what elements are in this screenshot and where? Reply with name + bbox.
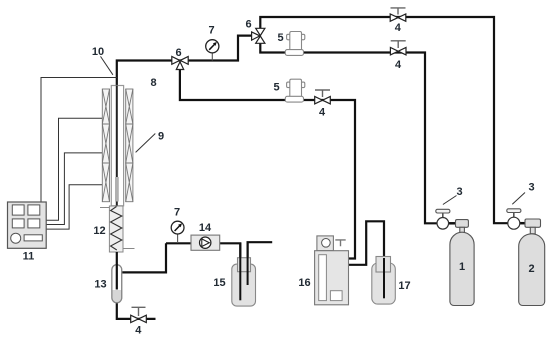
svg-text:17: 17 <box>398 280 410 292</box>
svg-text:2: 2 <box>528 263 534 275</box>
gas cylinder 2 <box>519 219 545 306</box>
svg-text:7: 7 <box>208 25 214 37</box>
reactor heater right jacket <box>126 89 133 202</box>
wire line3 from valve 6a to humidifier 16 <box>180 70 355 259</box>
svg-text:6: 6 <box>175 47 181 59</box>
wire separator 13 outlet to pump line <box>122 243 191 272</box>
svg-text:10: 10 <box>92 46 104 58</box>
bottle 15 <box>232 243 256 306</box>
three-way valve 6a <box>172 57 188 70</box>
svg-text:1: 1 <box>459 261 465 273</box>
wire riser valve6b to top line and down-leg line2 <box>260 17 508 223</box>
separator 13 <box>112 264 122 303</box>
svg-text:4: 4 <box>319 107 326 119</box>
svg-text:12: 12 <box>93 225 105 237</box>
svg-text:11: 11 <box>23 251 35 263</box>
leader label 10 <box>101 56 113 74</box>
svg-text:4: 4 <box>395 59 402 71</box>
three-way valve 6b <box>252 28 265 43</box>
regulator 3 cylinder1 <box>436 209 450 229</box>
wire cylinder2 regulator connector <box>520 222 525 225</box>
wire bottle 15 vent <box>248 242 273 285</box>
svg-text:3: 3 <box>456 186 462 198</box>
svg-text:4: 4 <box>395 22 402 34</box>
svg-text:16: 16 <box>298 277 310 289</box>
svg-text:7: 7 <box>174 207 180 219</box>
reactor heater left jacket <box>102 89 109 202</box>
svg-text:13: 13 <box>94 279 106 291</box>
bottle 17 <box>372 257 396 305</box>
pump 14 <box>191 235 220 250</box>
wire humidifier 16 outlet to bottle 17 <box>349 221 385 298</box>
svg-text:6: 6 <box>245 19 251 31</box>
valve 4b <box>390 41 406 55</box>
wire heater W4 to controller <box>47 185 103 229</box>
svg-text:4: 4 <box>135 325 142 337</box>
leader label 3b <box>512 193 525 205</box>
svg-text:5: 5 <box>277 32 283 44</box>
svg-text:8: 8 <box>150 77 156 89</box>
wire pump 14 outlet to bottle 15 dip tube <box>220 243 241 300</box>
svg-text:9: 9 <box>158 131 164 143</box>
svg-text:5: 5 <box>273 82 279 94</box>
filter 5b <box>285 79 305 102</box>
wire cylinder1 regulator connector <box>449 222 456 225</box>
valve 4c <box>315 90 331 104</box>
gas cylinder 1 <box>450 220 474 306</box>
svg-text:3: 3 <box>528 182 534 194</box>
valve 4d drain <box>131 307 147 322</box>
regulator 3 cylinder2 <box>507 209 521 229</box>
reactor tube 8/10 <box>111 86 123 206</box>
gauge 7 top <box>206 40 219 61</box>
leader label 9 <box>136 134 156 153</box>
valve 4a <box>390 8 406 21</box>
leader label 3a <box>443 196 457 205</box>
filter 5a <box>285 32 305 56</box>
gauge 7 bottom <box>171 221 184 243</box>
wire heater W3 to controller <box>47 153 103 225</box>
wire heater W2 to controller <box>47 118 103 220</box>
controller 11 <box>8 202 47 248</box>
wire reactor outlet to valve 6a <box>117 36 252 87</box>
wire separator 13 drain <box>117 303 156 319</box>
condenser 12 <box>100 206 135 265</box>
svg-text:15: 15 <box>213 277 225 289</box>
humidifier 16 <box>315 236 349 305</box>
svg-text:14: 14 <box>199 222 212 234</box>
wire thermocouple W1 to controller <box>41 78 117 203</box>
